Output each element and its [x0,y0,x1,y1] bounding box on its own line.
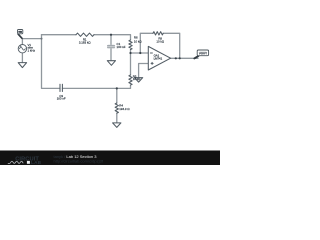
wire: V1 top to node A [22,39,41,45]
ground below R4 [113,123,121,128]
wire: R6 bottom to inverting input junction [130,50,132,54]
resistor R6 [129,40,132,49]
R4 junction dot [116,87,118,89]
svg-text:http://circuitlab.com/c/dpzj3f: http://circuitlab.com/c/dpzj3f [54,159,104,164]
wire: top wire node A to R1 [42,34,77,36]
label R5 value [133,74,141,81]
svg-text:LM741: LM741 [154,56,163,60]
svg-text:10 kΩ: 10 kΩ [156,40,164,44]
wire: R4 bottom to ground [116,113,118,122]
wire: junction down to R5 top [130,53,132,75]
resistor R5 [129,75,132,85]
ground below V1 [18,63,26,68]
capacitor C3 [60,84,62,91]
svg-text:194.3 Ω: 194.3 Ω [119,107,130,111]
resistor R1 [76,33,94,36]
feedback junction dot [139,52,141,54]
label R9 value [156,37,164,44]
label C3 value [57,94,66,101]
wire: V1 bottom to ground [21,53,23,63]
svg-text:VIN: VIN [18,31,22,34]
CircuitLab logo wordmark [8,156,42,165]
output pin dot [175,57,177,59]
flag VIN [18,30,23,39]
svg-text:VOUT: VOUT [199,52,208,56]
label V1 value [28,43,36,53]
label R4 value [119,103,130,111]
wire: op-amp output to VOUT [171,57,198,59]
footer title text [54,154,104,163]
svg-text:LAB: LAB [31,160,42,165]
output feedback junction dot [179,57,181,59]
resistor R9 [153,32,163,35]
svg-text:10 kΩ: 10 kΩ [134,39,142,43]
op-amp OA1 [148,46,170,70]
svg-text:100 nF: 100 nF [57,97,66,101]
label OA1 [154,53,163,60]
wire: inverting input wire [131,52,149,54]
wire: vertical node A down to C3 [42,39,61,89]
wire: R1 to R6 corner [94,35,131,40]
voltage source V1 [18,45,26,53]
wire: R9 to output vertical [163,33,180,58]
ground below C1 [107,61,115,66]
wire: feedback up and to R9 [140,33,153,53]
label R1 value [79,37,91,44]
wire: jog up at node A [41,35,43,39]
footer bar [0,151,220,166]
label R6 value [134,36,142,44]
capacitor C1 [107,45,115,49]
C1 junction dot [110,34,112,36]
node A junction dot [41,38,43,40]
ground at op-amp non-inverting input [135,78,143,82]
resistor R4 [115,103,118,113]
label C1 value [117,42,126,49]
wire: C1 bottom to ground [110,48,112,61]
svg-text:3.183 kΩ: 3.183 kΩ [79,40,91,44]
flag VOUT [194,50,208,58]
wire: R4 junction down [116,88,118,103]
wire: C1 junction down [110,35,112,46]
svg-text:1 kHz: 1 kHz [28,48,36,52]
wire: non-inverting input to ground [139,64,149,78]
svg-text:100 nF: 100 nF [117,45,126,49]
wire: C3 to bottom junction and up to R5 [62,85,130,88]
inverting input junction dot [129,52,131,54]
svg-text:10 kΩ: 10 kΩ [133,77,141,81]
